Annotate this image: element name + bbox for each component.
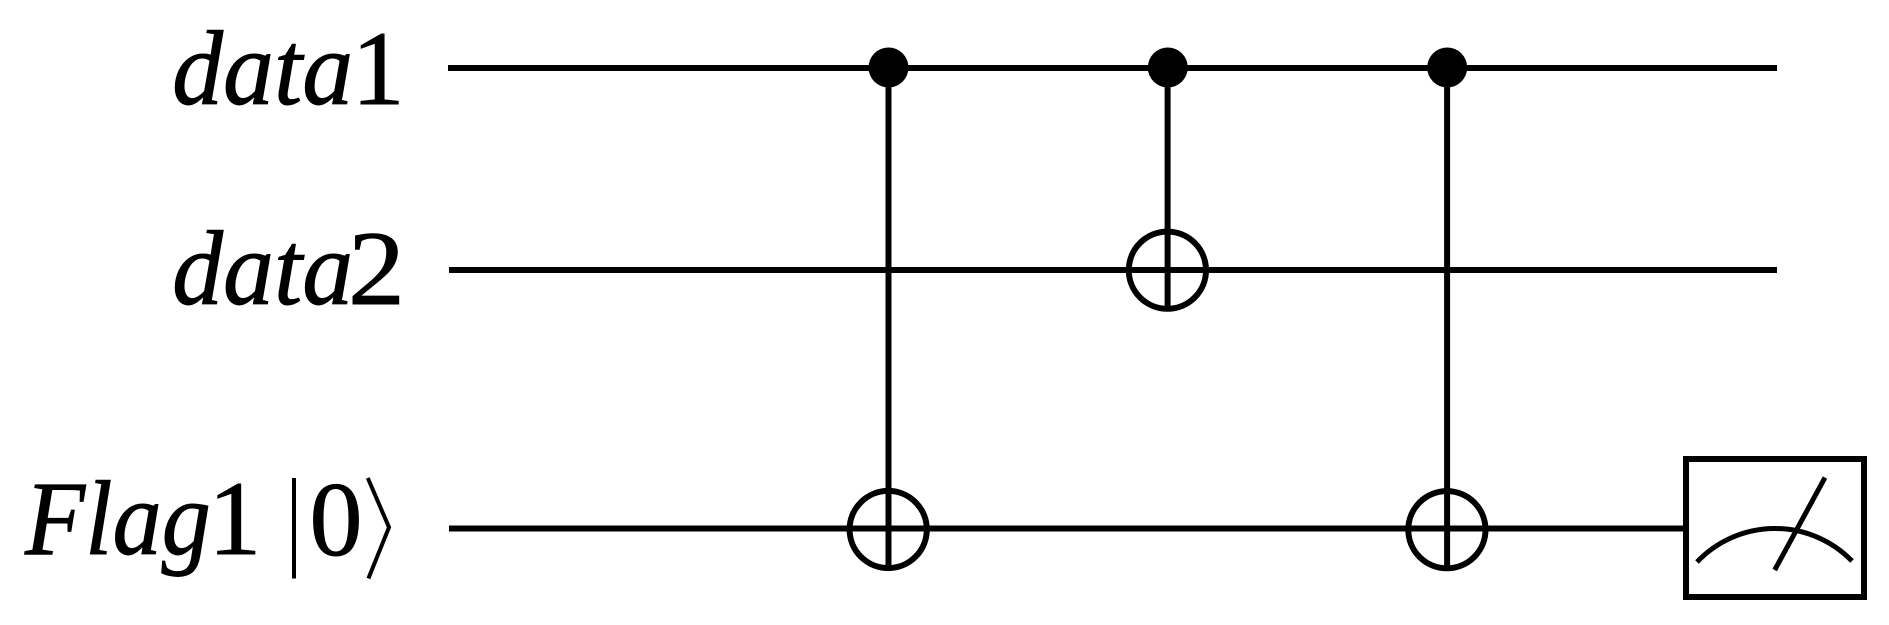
svg-text:data: data [172, 10, 353, 127]
ket bar | of |0> [292, 478, 296, 579]
measurement box frame [1686, 459, 1864, 597]
measurement needle [1775, 478, 1825, 570]
CNOT2 vertical wire [1165, 68, 1171, 312]
wire Flag1 [449, 526, 1684, 532]
svg-text:1: 1 [352, 10, 405, 127]
ket angle bracket > [368, 478, 389, 579]
svg-text:2: 2 [348, 210, 405, 327]
CNOT1 target circle on Flag1 [850, 491, 927, 568]
measurement meter arc [1697, 528, 1852, 562]
CNOT1 control dot on data1 [869, 48, 909, 88]
wire data1 [448, 65, 1777, 71]
svg-text:Flag: Flag [24, 460, 211, 577]
CNOT3 vertical wire [1444, 68, 1450, 571]
svg-text:0: 0 [310, 461, 363, 578]
CNOT2 target circle on data2 [1129, 232, 1206, 309]
CNOT1 vertical wire [886, 68, 892, 571]
CNOT3 target circle on Flag1 [1408, 491, 1485, 568]
svg-text:1: 1 [208, 460, 261, 577]
CNOT3 control dot on data1 [1427, 48, 1467, 88]
svg-text:data: data [172, 210, 353, 327]
CNOT2 control dot on data1 [1148, 48, 1188, 88]
wire data2 [449, 267, 1777, 273]
